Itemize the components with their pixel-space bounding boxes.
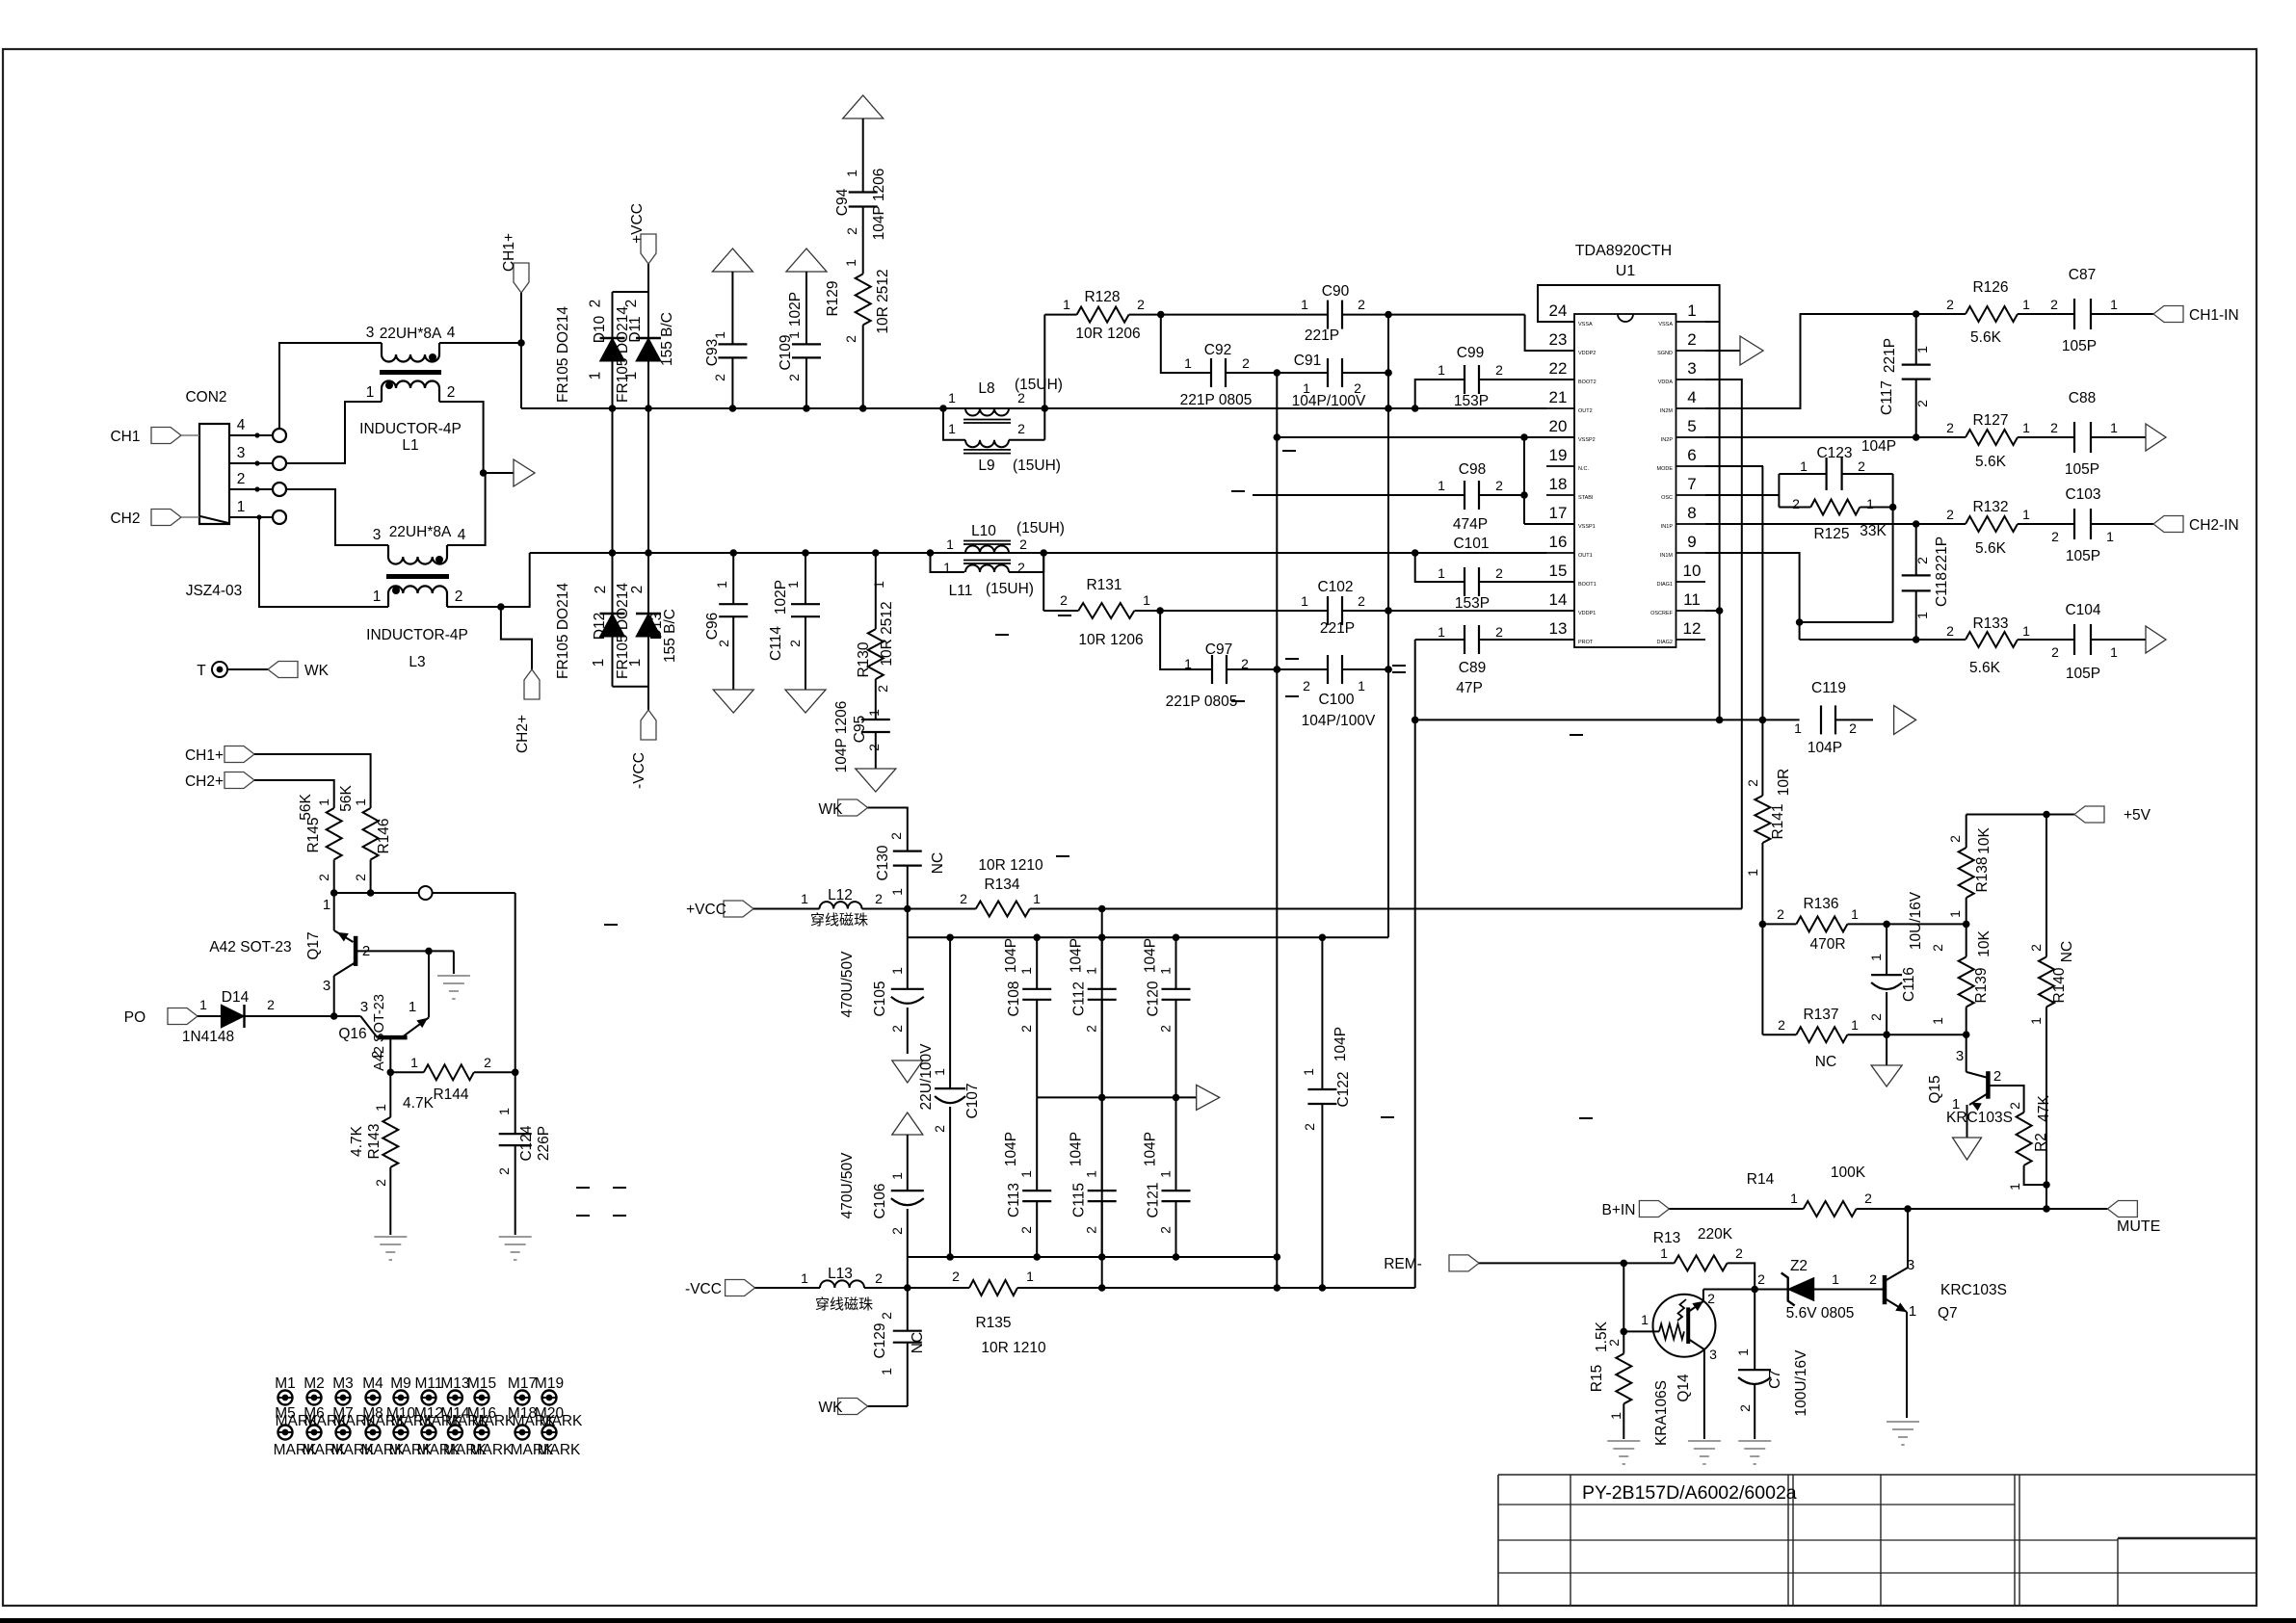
svg-text:MUTE: MUTE [2117,1218,2160,1235]
wire pin14 row [1388,610,1574,612]
svg-text:22UH*8A: 22UH*8A [389,524,452,540]
resistor R131 10R 1206 [1043,610,1078,612]
port PO [168,1008,198,1025]
svg-text:R137: R137 [1803,1007,1838,1023]
svg-text:19: 19 [1549,446,1568,464]
svg-text:+VCC: +VCC [686,902,726,918]
svg-text:C87: C87 [2069,267,2096,283]
svg-text:1: 1 [623,372,640,380]
inductor L12 (ferrite bead) [753,908,820,910]
svg-text:4.7K: 4.7K [403,1095,435,1112]
capacitor C99 153P [1479,379,1574,380]
buffer triangle at L1/L3 output [514,459,535,486]
resistor R134 10R 1210 [976,902,1030,917]
diode D10 (FR105 DO214) [600,337,625,339]
svg-text:R131: R131 [1086,577,1122,593]
resistor R126 5.6K [1916,313,1966,315]
svg-text:WK: WK [819,1400,844,1416]
capacitor C101 153P [1479,581,1574,583]
svg-text:2: 2 [875,685,890,693]
svg-text:2: 2 [875,1270,883,1286]
svg-text:47K: 47K [2036,1095,2052,1122]
svg-text:2: 2 [362,943,370,959]
svg-text:CH1: CH1 [110,429,140,445]
svg-text:3: 3 [366,325,375,341]
svg-text:10R 1210: 10R 1210 [978,857,1043,874]
R136 row [1759,921,1767,929]
svg-text:1: 1 [1947,910,1963,918]
svg-text:104P/100V: 104P/100V [1302,713,1376,729]
svg-text:2: 2 [1242,355,1250,371]
svg-text:2: 2 [1084,1226,1099,1234]
svg-text:C130: C130 [875,845,891,880]
port CH2+ (mid) [524,669,540,699]
svg-text:D14: D14 [222,989,250,1006]
-VCC row [904,1284,911,1292]
svg-text:10R 1206: 10R 1206 [1075,326,1140,342]
node R128/C90 [1157,311,1165,319]
svg-text:1: 1 [943,560,951,575]
svg-text:C100: C100 [1318,692,1354,708]
svg-text:L1: L1 [402,437,418,454]
svg-text:1: 1 [2022,507,2030,522]
svg-text:R144: R144 [433,1086,468,1103]
svg-text:2: 2 [496,1167,512,1175]
svg-text:C92: C92 [1204,342,1231,358]
svg-text:2: 2 [2051,644,2059,660]
svg-text:Q7: Q7 [1938,1305,1958,1322]
svg-text:2: 2 [787,640,803,647]
U1 pin 8 (IN1P) [1676,523,1706,525]
svg-text:2: 2 [1302,1123,1317,1131]
svg-text:1: 1 [1930,1017,1945,1025]
svg-text:1: 1 [1641,1312,1649,1327]
svg-text:1: 1 [1026,1269,1034,1284]
capacitor C115 104P [1101,1097,1103,1191]
svg-text:(15UH): (15UH) [1016,520,1065,537]
svg-text:SGND: SGND [1657,351,1673,356]
svg-text:221P 0805: 221P 0805 [1166,694,1238,710]
svg-text:24: 24 [1549,301,1568,320]
resistor R133 5.6K [1916,639,1966,641]
svg-text:N.C.: N.C. [1578,466,1589,472]
svg-text:VSSA: VSSA [1578,322,1593,327]
wire pin7 to C123/R125 block [1705,494,1779,496]
resistor R2 47K [2017,1113,2032,1165]
svg-text:1: 1 [1868,954,1884,961]
svg-text:1: 1 [1909,1303,1916,1320]
svg-text:R135: R135 [975,1315,1011,1331]
svg-text:11: 11 [1683,590,1701,609]
svg-text:2: 2 [1792,496,1800,511]
inductor L8 (15UH) [965,408,1009,416]
svg-text:C117: C117 [1879,380,1895,415]
svg-text:R140: R140 [2051,967,2068,1003]
svg-text:1: 1 [2022,420,2030,435]
svg-text:2: 2 [866,744,882,751]
svg-text:C118: C118 [1934,572,1950,607]
svg-text:1: 1 [2110,297,2118,312]
svg-text:470U/50V: 470U/50V [839,951,856,1018]
wire CON2 pin3 to L1 pin1 [286,402,382,463]
svg-text:12: 12 [1683,619,1702,638]
svg-text:1: 1 [591,659,607,668]
svg-text:VSSA: VSSA [1658,322,1673,327]
svg-text:2: 2 [786,374,802,381]
wire C90 to pin23 [1525,315,1574,351]
svg-text:2: 2 [1158,1226,1174,1234]
svg-text:-VCC: -VCC [685,1281,722,1297]
node R125/C123 right [1892,474,1894,622]
svg-text:1: 1 [409,999,416,1015]
svg-text:NC: NC [910,1332,926,1353]
svg-text:2: 2 [843,335,858,343]
power arrow above C106 [892,1113,923,1135]
svg-text:NC: NC [1815,1054,1836,1070]
svg-text:1: 1 [410,1055,418,1070]
ground below C124 [499,1236,532,1238]
svg-text:2: 2 [1737,1404,1753,1412]
svg-text:R136: R136 [1803,896,1838,912]
port CH1-IN [2153,306,2183,323]
U1 pin 23 (VDDP2) [1546,350,1574,352]
svg-text:1: 1 [1735,1348,1751,1356]
svg-text:CH2-IN: CH2-IN [2189,517,2239,534]
node C90 line / vertical to C102 [1385,311,1392,319]
svg-text:10R 1210: 10R 1210 [981,1340,1046,1356]
node R131/C97 [1156,607,1164,615]
power ground below C116 row [1886,1034,1887,1065]
resistor R127 5.6K [1916,436,1966,438]
U1 pin 19 (N.C.) [1546,465,1574,467]
long vertical C92 node down to -VCC row [1276,373,1278,1288]
svg-text:1: 1 [1438,624,1445,640]
U1 pin 12 (DIAG2) [1676,639,1706,641]
wire L1 pin4 to CH1+ node [439,342,521,344]
svg-text:R132: R132 [1972,499,2008,515]
svg-text:221P: 221P [1305,327,1339,344]
svg-text:C101: C101 [1453,536,1489,552]
svg-text:1: 1 [1794,720,1802,736]
capacitor C113 104P [1036,1097,1038,1191]
MODE vertical from pin6 [1705,465,1763,467]
transistor Q14 KRA106S (digital) [1653,1295,1716,1357]
resistor R137 NC [1796,1027,1847,1042]
wire pin4 up to CH1-IN row [1705,314,1916,408]
power arrow below C96 [713,690,753,713]
inductor L13 (ferrite bead) [755,1287,820,1289]
svg-text:2: 2 [1158,1025,1174,1033]
U1 pin 6 (MODE) [1676,465,1706,467]
U1 pin 21 (OUT2) [1546,407,1574,409]
svg-text:2: 2 [1303,678,1310,694]
pin11 branch down to C119 row [1705,610,1720,612]
svg-text:56K: 56K [338,785,355,812]
svg-text:2: 2 [1495,478,1503,493]
svg-text:R143: R143 [366,1123,383,1159]
transistor Q15 KRC103S [1963,1031,1970,1038]
svg-text:2: 2 [1914,400,1930,407]
svg-text:CH2: CH2 [110,510,140,527]
svg-text:2: 2 [1849,720,1857,736]
OUT2 bus (pin21 net) [521,407,1546,409]
svg-text:10K: 10K [1976,930,1993,957]
svg-text:1: 1 [2110,644,2118,660]
svg-text:2: 2 [267,997,275,1012]
svg-text:REM-: REM- [1384,1256,1422,1272]
capacitor C130 NC [893,850,922,851]
svg-text:2: 2 [844,227,859,235]
capacitor C116 10U/16V [1886,924,1887,975]
+5V rail [1966,814,2074,816]
svg-text:R146: R146 [376,818,392,853]
svg-text:1: 1 [1184,355,1192,371]
svg-text:BOOT2: BOOT2 [1578,380,1597,385]
svg-text:2: 2 [888,832,904,840]
svg-text:OSC: OSC [1661,495,1673,501]
wire pin2 to SGND triangle [1705,350,1740,352]
wire D10/D11 continue down to CH2 bus [612,408,614,553]
transistor Q16 A42 SOT-23 [360,1016,377,1037]
svg-text:1: 1 [786,331,802,339]
svg-text:1: 1 [588,372,604,380]
svg-text:2: 2 [623,300,640,308]
ground below R143 [374,1236,407,1238]
resistor R13 220K [1675,1255,1728,1270]
svg-text:PY-2B157D/A6002/6002a: PY-2B157D/A6002/6002a [1582,1482,1797,1504]
svg-text:C114: C114 [768,626,784,661]
svg-text:R130: R130 [856,641,872,677]
svg-text:DIAG1: DIAG1 [1656,582,1673,588]
capacitor C118 221P [1915,524,1917,575]
svg-text:1: 1 [627,659,644,668]
capacitor C119 104P [1820,705,1822,734]
svg-text:2: 2 [1687,330,1696,349]
svg-text:R133: R133 [1972,615,2008,632]
wire C92 branch [1161,315,1211,373]
capacitor C7 100U/16V [1754,1290,1755,1371]
svg-text:2: 2 [1017,560,1025,575]
svg-text:104P: 104P [1069,1132,1085,1166]
svg-text:T: T [197,663,206,679]
power ground below Q15 [1953,1138,1982,1160]
svg-text:5.6K: 5.6K [1975,454,2007,470]
wire pin24-pin1 top bracket [1538,285,1720,322]
svg-text:33K: 33K [1860,523,1887,539]
svg-text:L10: L10 [971,523,996,539]
wire L1 pin2 down [439,402,484,473]
buffer triangle C104 out [2146,626,2166,653]
capacitor C103 105P [2073,509,2075,539]
svg-text:1: 1 [1851,906,1859,922]
svg-text:1: 1 [353,798,368,806]
R137 row [1761,924,1763,1034]
svg-text:2: 2 [932,1125,947,1133]
inductor L1 (INDUCTOR-4P 22UH*8A) [381,343,383,354]
ground at Q17 pin2 [437,975,470,977]
svg-text:1: 1 [1301,1068,1316,1076]
inductor L11 (15UH) [931,553,965,572]
R133 row [1800,639,1916,641]
svg-text:14: 14 [1549,590,1568,609]
svg-text:1: 1 [1866,496,1874,511]
svg-text:R128: R128 [1084,289,1120,305]
wire CH2 to CON2 [181,516,199,518]
svg-text:VDDP1: VDDP1 [1578,611,1596,616]
svg-text:5.6K: 5.6K [1975,540,2007,557]
port -VCC (left) [726,1280,755,1296]
svg-text:2: 2 [1735,1245,1743,1261]
ground below C7 [1738,1440,1771,1442]
resistor R145 56K [327,808,342,860]
port CH1 [151,428,181,444]
ground below Q14 [1688,1440,1721,1442]
svg-text:1: 1 [844,170,859,177]
svg-text:18: 18 [1549,475,1568,493]
svg-text:1: 1 [1832,1271,1839,1287]
port REM- [1449,1255,1479,1271]
vertical pin1 bracket down [1719,322,1721,611]
svg-text:2: 2 [455,589,463,605]
resistor R141 10R [1755,796,1770,843]
svg-text:BOOT1: BOOT1 [1578,582,1597,588]
svg-text:R13: R13 [1653,1230,1680,1246]
svg-text:1: 1 [323,897,330,913]
svg-text:C102: C102 [1317,579,1353,595]
wire CON2 pin2 to L3 pin3 [286,489,388,545]
svg-text:1: 1 [2110,420,2118,435]
node C116 top [1883,921,1890,929]
svg-text:C116: C116 [1901,967,1917,1002]
capacitor C100 104P/100V [1277,668,1328,670]
svg-text:CH2+: CH2+ [515,715,531,753]
svg-text:1: 1 [316,798,331,806]
REM- row [1479,1262,1623,1264]
svg-text:2: 2 [960,891,967,906]
U1 pin 18 (STABI) [1546,494,1574,496]
capacitor C108 104P [1036,937,1038,989]
svg-text:INDUCTOR-4P: INDUCTOR-4P [366,627,468,643]
svg-text:1: 1 [237,499,246,515]
port B+IN [1639,1201,1669,1217]
power arrow above C93 [712,249,752,272]
nc dash on C98 pin1 [1231,490,1245,492]
svg-text:2: 2 [2007,1102,2022,1110]
svg-text:1: 1 [1790,1191,1798,1206]
svg-text:4: 4 [458,527,466,543]
wire node down to CH2+ port [501,607,532,669]
svg-text:2: 2 [1946,420,1954,435]
svg-text:C105: C105 [872,981,888,1016]
cap bank bottom rail [908,1256,1278,1258]
svg-text:C108: C108 [1006,981,1022,1016]
svg-text:104P: 104P [1333,1027,1349,1061]
svg-text:C121: C121 [1146,1182,1162,1217]
svg-text:470U/50V: 470U/50V [839,1152,856,1219]
tie point T with WK tag [212,662,227,677]
port -VCC (mid) [641,710,656,740]
svg-text:20: 20 [1549,417,1568,435]
svg-text:1: 1 [2007,1183,2022,1191]
svg-text:1: 1 [712,331,727,339]
VDDA vertical from pin3 [1705,380,1742,909]
resistor R140 NC [2045,815,2047,957]
capacitor C106 470U/50V [907,1135,909,1191]
inductor L3 (INDUCTOR-4P 22UH*8A) [387,545,389,557]
svg-text:22UH*8A: 22UH*8A [380,326,442,342]
svg-text:1: 1 [2022,623,2030,639]
svg-text:1: 1 [1745,869,1760,877]
U1 pin 15 (BOOT1) [1546,581,1574,583]
bottom black bar [0,1618,2296,1623]
svg-text:2: 2 [712,374,727,381]
svg-text:7: 7 [1687,475,1696,493]
svg-text:Q15: Q15 [1927,1075,1943,1103]
node L1-L3 output junction [480,469,488,477]
svg-text:CH1+: CH1+ [501,233,517,272]
wire CON2 pin4 to L1 pin3 [279,343,382,429]
svg-text:2: 2 [1930,944,1945,952]
U1 pin 7 (OSC) [1676,494,1706,496]
svg-text:1: 1 [948,390,956,406]
svg-text:3: 3 [1956,1048,1964,1064]
svg-text:Q14: Q14 [1676,1374,1692,1402]
svg-text:10R 2512: 10R 2512 [875,269,891,333]
CON2 pin 1 [229,516,273,518]
svg-text:21: 21 [1549,388,1568,406]
resistor R14 100K [1804,1201,1857,1217]
svg-text:2: 2 [1358,593,1365,609]
port WK (bottom) [868,1405,908,1407]
wire CON2 pin1 to L3 pin1 [259,517,388,607]
capacitor C107 22U/100V [949,937,951,1088]
svg-text:1: 1 [1184,656,1192,671]
svg-text:2: 2 [889,1227,905,1235]
VSSP2/VSSP1 bracket with C98 [1523,437,1525,524]
svg-text:100K: 100K [1831,1165,1866,1181]
svg-text:1: 1 [871,581,886,589]
U1 pin 10 (DIAG1) [1676,581,1706,583]
svg-text:10U/16V: 10U/16V [1908,891,1924,950]
port CH2-IN [2153,516,2183,533]
svg-text:WK: WK [304,663,330,679]
svg-text:5.6K: 5.6K [1970,329,2002,346]
U1 pin 13 (PROT) [1546,639,1574,641]
svg-text:2: 2 [588,300,604,308]
svg-text:102P: 102P [787,292,804,327]
svg-text:1: 1 [1438,565,1445,581]
svg-text:5: 5 [1687,417,1696,435]
transistor Q17 A42 SOT-23 [333,893,335,930]
svg-text:VDDP2: VDDP2 [1578,351,1596,356]
svg-text:4.7K: 4.7K [349,1125,365,1157]
svg-text:C119: C119 [1811,680,1846,696]
svg-text:C124: C124 [518,1125,535,1161]
port MUTE [2107,1201,2137,1217]
wire CH1 to CON2 [181,434,199,436]
svg-text:C112: C112 [1071,982,1088,1016]
capacitor C95 104P 1206 [861,719,890,720]
port CH1+ (top) [514,263,529,293]
svg-text:10R 1206: 10R 1206 [1078,632,1143,648]
capacitor C88 105P [2073,422,2075,453]
svg-text:D11: D11 [627,316,644,342]
wire pin20 row [1277,436,1574,438]
connector CON2 [199,424,229,524]
svg-text:9: 9 [1687,533,1696,551]
svg-text:10R: 10R [1776,769,1792,796]
U1 pin 11 (OSCREF) [1676,610,1706,612]
